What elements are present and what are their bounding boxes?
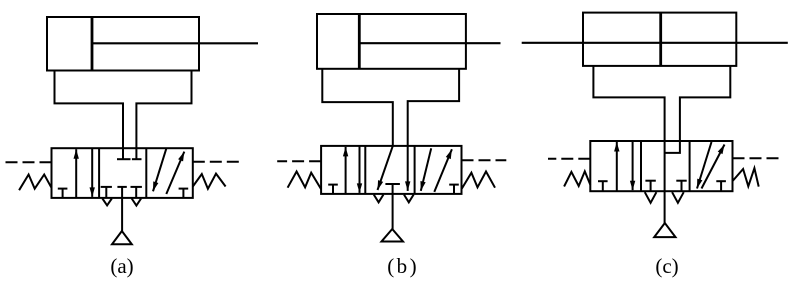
valve V-b pilot dashed line right: [462, 159, 507, 161]
valve V-c flow arrow down (left box): [630, 141, 635, 190]
svg-text:(b): (b): [387, 254, 419, 278]
valve V-b position divider 2: [414, 146, 416, 194]
valve V-b blocked port T (right box): [449, 185, 459, 194]
pressure source triangle (c): [654, 223, 675, 237]
cylinder CYL-C piston: [659, 13, 662, 66]
cylinder CYL-B body: [317, 14, 466, 69]
valve V-b blocked pressure port T (centre box): [385, 184, 400, 194]
pipe rod-end to valve port B (c): [680, 66, 730, 141]
valve V-a blocked top port B bar (centre box): [132, 158, 142, 160]
valve V-a flow arrow down (left box): [90, 148, 95, 197]
valve V-a blocked bottom port T right (centre box): [131, 187, 142, 198]
valve V-c position divider 2: [689, 141, 691, 191]
valve V-c blocked port T (right box): [716, 181, 726, 191]
valve V-a body: [52, 148, 193, 198]
cylinder CYL-B piston: [358, 14, 361, 69]
valve V-b return spring left: [288, 172, 322, 190]
pressure source triangle (a): [112, 231, 132, 244]
valve V-c blocked port T (left box): [598, 181, 608, 191]
pressure supply line (a): [121, 198, 123, 231]
pipe cap-end to valve port A: [55, 71, 124, 160]
cylinder CYL-A piston: [91, 17, 94, 71]
valve V-a return spring right: [193, 174, 226, 189]
valve V-c diagonal flow arrow up (right box): [702, 145, 725, 189]
pipe rod-end to valve port B: [136, 71, 191, 160]
valve V-b pilot dashed line left: [277, 160, 321, 162]
valve V-a position divider 2: [145, 148, 147, 198]
svg-text:(a): (a): [110, 254, 133, 278]
valve V-c flow arrow up (left box): [614, 142, 619, 191]
pipe cap-end to valve port A (b): [322, 69, 393, 146]
valve V-b diagonal exhaust flow arrow (centre box): [378, 146, 393, 190]
valve V-c exhaust triangle right: [672, 192, 684, 203]
cylinder CYL-A piston rod: [92, 42, 258, 44]
valve V-c centre flow line P to A: [664, 141, 666, 223]
svg-text:(c): (c): [655, 254, 678, 278]
valve V-c body: [590, 141, 732, 191]
pressure supply line (b): [392, 194, 394, 229]
valve V-a blocked port T (left box): [58, 189, 68, 198]
valve V-a exhaust triangle right: [132, 199, 141, 206]
valve V-a blocked bottom port T centre (centre box): [117, 187, 126, 198]
cylinder CYL-C through piston rod: [522, 42, 788, 44]
valve V-b flow arrow up (left box): [343, 147, 348, 194]
valve V-a pilot dashed line right: [193, 161, 240, 163]
valve V-a blocked port T (right box): [179, 189, 189, 198]
valve V-b position divider 1: [364, 146, 366, 194]
valve V-a return spring left: [19, 175, 51, 191]
valve V-c position divider 1: [640, 141, 642, 191]
cylinder CYL-A body: [47, 17, 199, 71]
valve V-a pilot dashed line left: [5, 161, 52, 163]
valve V-a position divider 1: [98, 148, 100, 198]
pipe rod-end to valve port B (b): [408, 69, 459, 146]
valve V-b diagonal flow arrow up (right box): [434, 149, 452, 192]
pipe cap-end to valve port A (c): [593, 66, 664, 141]
valve V-c exhaust triangle left: [645, 192, 657, 203]
valve V-c blocked bottom port T left (centre box): [645, 181, 655, 192]
valve V-c return spring left: [564, 171, 590, 186]
valve V-c pilot dashed line right: [733, 157, 781, 159]
valve V-c diagonal flow arrow down (right box): [697, 142, 712, 189]
valve V-a blocked top port A bar (centre box): [117, 158, 131, 160]
valve V-c bypass hook B to centre line: [665, 141, 680, 153]
valve V-a blocked bottom port T left (centre box): [101, 187, 112, 198]
pressure source triangle (b): [382, 229, 404, 242]
valve V-b exhaust triangle right: [404, 195, 414, 203]
valve V-a exhaust triangle left: [102, 199, 111, 206]
valve V-c pilot dashed line left: [548, 158, 590, 160]
valve V-a flow arrow up (left box): [74, 149, 79, 198]
cylinder CYL-B piston rod: [359, 42, 500, 44]
valve V-b diagonal flow arrow down (right box): [420, 148, 431, 191]
valve V-b body: [321, 146, 461, 194]
valve V-b blocked port T (left box): [328, 185, 338, 194]
valve V-b flow arrow down (left box): [357, 146, 362, 193]
valve V-b exhaust triangle left: [374, 195, 384, 203]
valve V-a diagonal flow arrow down (right box): [153, 149, 166, 192]
valve V-b straight exhaust flow arrow (centre box): [405, 146, 410, 191]
valve V-c blocked bottom port T right (centre box): [676, 181, 686, 192]
valve V-a diagonal flow arrow up (right box): [166, 152, 184, 194]
cylinder CYL-C body: [583, 13, 736, 66]
valve V-b return spring right: [462, 172, 496, 190]
valve V-c return spring right: [733, 168, 759, 186]
